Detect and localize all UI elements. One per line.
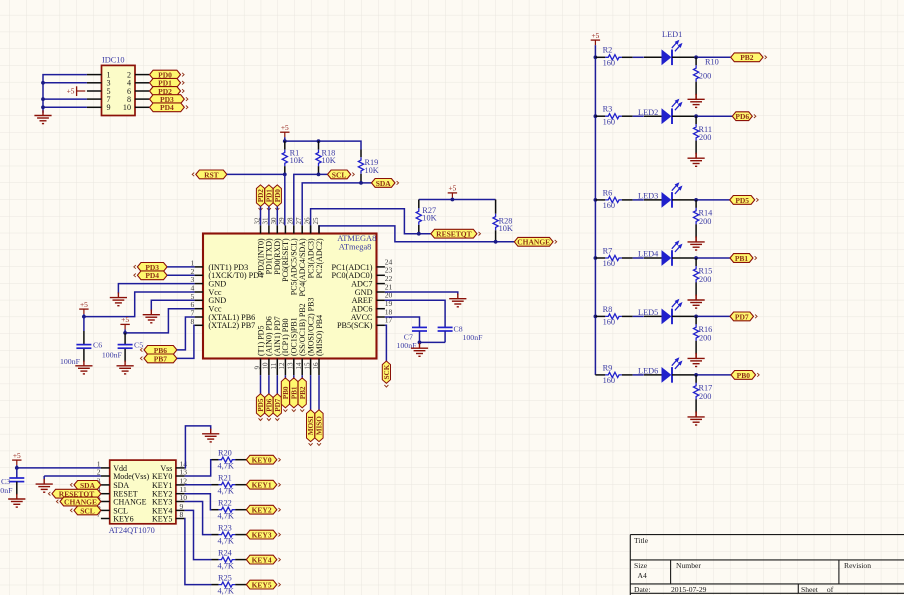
svg-text:PD7: PD7 <box>274 398 282 412</box>
svg-text:+5: +5 <box>67 86 75 95</box>
connector IDC10 <box>102 55 136 115</box>
svg-text:160: 160 <box>603 201 615 210</box>
svg-text:2015-07-29: 2015-07-29 <box>671 585 707 594</box>
svg-text:PB1: PB1 <box>290 386 298 399</box>
junction <box>594 198 598 202</box>
port SDA (AT24) <box>70 481 101 490</box>
port SCK <box>382 361 391 387</box>
svg-text:100nF: 100nF <box>463 333 484 342</box>
resistor R20 4,7K <box>212 449 247 471</box>
wire +5 pin6 <box>125 309 195 333</box>
svg-text:PD5: PD5 <box>257 398 265 412</box>
svg-text:R6: R6 <box>603 188 613 197</box>
port KEY4 <box>246 555 280 564</box>
port PB0 (bottom) <box>281 378 290 412</box>
U1 top pin numbers <box>253 217 320 225</box>
wire KEY4 <box>185 510 212 559</box>
port PD6 <box>732 112 756 121</box>
svg-text:4,7K: 4,7K <box>218 462 234 471</box>
ATMEGA8 U1 body <box>203 234 377 359</box>
port KEY3 <box>246 530 280 539</box>
wire pin9 <box>43 106 87 108</box>
svg-text:2: 2 <box>97 468 101 477</box>
wire <box>696 115 732 117</box>
resistor R22 4,7K <box>212 499 247 521</box>
resistor R21 4,7K <box>212 474 247 496</box>
wire RST <box>227 173 285 175</box>
junction <box>694 55 698 59</box>
svg-text:of: of <box>827 585 834 594</box>
svg-text:10K: 10K <box>365 166 379 175</box>
svg-text:4,7K: 4,7K <box>218 487 234 496</box>
svg-text:10: 10 <box>123 103 131 112</box>
port RESETQT (AT24) <box>48 489 101 498</box>
wire KEY0 <box>185 460 212 476</box>
port PB2 (bottom) <box>298 378 307 412</box>
junction <box>123 331 127 335</box>
wire <box>633 115 644 117</box>
svg-text:(MISO) PB4: (MISO) PB4 <box>315 315 324 356</box>
svg-text:SCK: SCK <box>383 364 391 379</box>
U1 right pin names <box>332 263 373 330</box>
wire <box>301 375 303 378</box>
svg-text:+5: +5 <box>281 123 289 132</box>
port PD1 <box>150 78 185 87</box>
svg-text:200: 200 <box>699 333 711 342</box>
port PD1 (top) <box>265 185 274 210</box>
resistor R10 200 <box>694 57 719 95</box>
svg-text:PD2: PD2 <box>257 189 265 203</box>
wire <box>695 153 697 159</box>
svg-text:KEY3: KEY3 <box>152 497 172 506</box>
port PD4 <box>134 271 167 280</box>
svg-text:10K: 10K <box>499 224 513 233</box>
wire <box>260 207 262 226</box>
wire <box>696 374 731 376</box>
ground R15 <box>688 295 705 308</box>
wire <box>633 315 644 317</box>
ground R11 <box>688 153 705 166</box>
svg-text:9: 9 <box>107 103 111 112</box>
wire <box>284 137 286 141</box>
U1 right pins 24-17 <box>377 267 385 325</box>
wire <box>695 295 697 301</box>
ground R17 <box>688 412 705 425</box>
resistor R23 4,7K <box>212 523 247 545</box>
svg-text:R21: R21 <box>218 474 232 483</box>
wire pin18 C7 <box>385 317 420 327</box>
svg-text:Sheet: Sheet <box>801 585 819 594</box>
wire <box>672 56 696 58</box>
U1 top pin names <box>256 238 324 297</box>
wire +5 to R19 <box>285 141 361 149</box>
svg-text:Number: Number <box>676 561 701 570</box>
svg-text:28: 28 <box>287 217 295 225</box>
svg-text:200: 200 <box>699 392 711 401</box>
svg-text:10K: 10K <box>422 214 436 223</box>
svg-text:200: 200 <box>699 275 711 284</box>
svg-text:9: 9 <box>253 366 261 370</box>
svg-text:PC2(ADC2): PC2(ADC2) <box>315 238 324 278</box>
svg-text:KEY5: KEY5 <box>252 581 272 590</box>
U1 bottom pins 9-16 <box>261 359 320 376</box>
resistor R3 160 <box>595 105 632 127</box>
wire <box>695 236 697 242</box>
svg-text:PB0: PB0 <box>282 386 290 399</box>
port KEY0 <box>246 455 280 464</box>
wire pin20 C8 <box>385 300 445 327</box>
svg-text:KEY0: KEY0 <box>152 472 172 481</box>
svg-text:200: 200 <box>699 217 711 226</box>
svg-text:R10: R10 <box>705 58 719 67</box>
svg-text:LED1: LED1 <box>662 30 682 39</box>
svg-text:+5: +5 <box>80 300 88 309</box>
svg-text:200: 200 <box>699 133 711 142</box>
wire pin7 <box>43 98 87 100</box>
svg-text:14: 14 <box>295 362 303 370</box>
junction <box>283 173 287 177</box>
resistor R19 10K <box>358 150 378 183</box>
junction <box>694 114 698 118</box>
svg-text:R9: R9 <box>603 363 613 372</box>
junction <box>694 315 698 319</box>
junction <box>451 198 455 202</box>
svg-text:PD6: PD6 <box>266 398 274 412</box>
wire <box>633 257 644 259</box>
svg-text:KEY6: KEY6 <box>113 514 133 523</box>
resistor R11 200 <box>694 116 713 154</box>
svg-text:4,7K: 4,7K <box>218 512 234 521</box>
U2 right pin numbers <box>180 459 188 519</box>
svg-text:C3: C3 <box>1 477 10 486</box>
svg-text:A4: A4 <box>638 571 647 580</box>
resistor R14 200 <box>694 200 714 238</box>
svg-text:8: 8 <box>191 317 195 326</box>
junction <box>41 81 45 85</box>
U1 bottom pin names <box>256 298 324 356</box>
port PD5 (bottom) <box>256 394 265 421</box>
wire PB6 <box>177 317 195 350</box>
wire RESETQT <box>311 209 431 234</box>
svg-text:100nF: 100nF <box>0 486 13 495</box>
svg-text:+5: +5 <box>448 184 456 193</box>
capacitor C6 100nF <box>60 317 102 367</box>
svg-text:IDC10: IDC10 <box>102 55 125 64</box>
resistor R18 10K <box>316 141 336 174</box>
LED LED5 <box>638 300 681 324</box>
wire <box>16 465 18 468</box>
resistor R27 10K <box>416 200 436 234</box>
wire gnd rail <box>43 75 87 113</box>
svg-text:+5: +5 <box>13 451 21 460</box>
ground pin2 <box>36 479 53 492</box>
svg-text:KEY0: KEY0 <box>252 456 272 465</box>
wire SDA <box>302 183 371 226</box>
svg-text:LED3: LED3 <box>638 192 658 201</box>
svg-text:LED4: LED4 <box>638 250 659 259</box>
wire <box>268 375 270 394</box>
svg-text:CHANGE: CHANGE <box>517 238 550 247</box>
port MISO (bottom) <box>315 410 324 446</box>
svg-text:15: 15 <box>303 362 311 370</box>
svg-text:RST: RST <box>204 170 219 179</box>
junction <box>494 240 498 244</box>
wire +5 Vdd <box>17 467 101 469</box>
svg-text:11: 11 <box>270 362 278 369</box>
svg-text:4,7K: 4,7K <box>218 586 234 595</box>
svg-text:+5: +5 <box>591 31 599 40</box>
wire <box>310 375 312 410</box>
wire <box>43 476 45 480</box>
svg-text:PB5(SCK): PB5(SCK) <box>337 321 373 330</box>
wire pin2 gnd <box>44 475 101 477</box>
resistor R1 10K <box>282 141 304 174</box>
resistor R15 200 <box>694 258 713 296</box>
U2 left pin names <box>113 464 149 524</box>
wire <box>83 314 85 317</box>
ground pin5 <box>143 310 160 323</box>
svg-text:100nF: 100nF <box>102 350 123 359</box>
ground R10 <box>688 94 705 107</box>
wire KEY5 <box>185 519 212 585</box>
wire <box>695 353 697 359</box>
svg-text:R22: R22 <box>218 499 232 508</box>
+5 power R27 <box>448 184 457 198</box>
junction <box>317 173 321 177</box>
wire <box>696 315 730 317</box>
+5 power pin6 <box>120 315 129 329</box>
port SDA <box>372 179 399 188</box>
svg-text:Mode(Vss): Mode(Vss) <box>113 472 149 481</box>
port PD0 <box>150 70 185 79</box>
junction <box>41 105 45 109</box>
capacitor C3 100nF <box>0 468 24 495</box>
svg-text:RESETQT: RESETQT <box>436 230 471 239</box>
port PD2 <box>150 87 185 96</box>
svg-text:ATmega8: ATmega8 <box>339 243 372 252</box>
wire <box>696 257 730 259</box>
wire <box>451 198 453 200</box>
wire <box>695 94 697 100</box>
svg-text:10K: 10K <box>290 156 304 165</box>
+5 power AT24 <box>12 451 21 465</box>
IDC10 pins <box>87 75 149 108</box>
svg-text:R23: R23 <box>218 523 232 532</box>
port PB6 <box>140 346 177 355</box>
svg-text:12: 12 <box>278 362 286 370</box>
LED LED3 <box>638 184 681 208</box>
svg-text:SCL: SCL <box>332 170 347 179</box>
wire <box>167 266 195 268</box>
port MOSI (bottom) <box>307 410 316 446</box>
+5 power R1 <box>280 123 289 137</box>
wire <box>633 374 644 376</box>
U1 left pin names <box>208 263 263 330</box>
svg-text:Title: Title <box>634 536 649 545</box>
svg-text:Revision: Revision <box>844 561 871 570</box>
ground C7 <box>411 343 428 356</box>
resistor R9 160 <box>595 363 632 385</box>
wire <box>293 375 295 378</box>
svg-text:29: 29 <box>278 217 286 225</box>
port PB7 <box>140 354 177 363</box>
svg-text:SCL: SCL <box>80 506 95 515</box>
svg-text:KEY3: KEY3 <box>252 531 272 540</box>
svg-text:160: 160 <box>603 59 615 68</box>
port PD4 <box>150 103 188 112</box>
U1 left pin numbers <box>191 258 195 325</box>
svg-text:25: 25 <box>312 217 320 225</box>
svg-text:160: 160 <box>603 376 615 385</box>
svg-text:ATMEGA8: ATMEGA8 <box>337 234 376 243</box>
svg-text:8: 8 <box>180 510 184 519</box>
resistor R17 200 <box>694 375 713 413</box>
svg-text:R7: R7 <box>603 246 613 255</box>
svg-text:R8: R8 <box>603 305 613 314</box>
wire <box>696 56 731 58</box>
svg-text:PB1: PB1 <box>735 254 749 263</box>
resistor R25 4,7K <box>212 573 247 595</box>
svg-text:13: 13 <box>287 362 295 370</box>
wire <box>276 207 278 226</box>
U1 top pins 32-25 <box>261 225 320 233</box>
port SCL (AT24) <box>70 506 101 515</box>
port PD0 (top) <box>273 185 282 210</box>
LED LED1 <box>644 30 682 65</box>
junction <box>418 341 422 345</box>
svg-text:Date:: Date: <box>634 585 650 594</box>
ground R16 <box>688 353 705 366</box>
svg-text:KEY1: KEY1 <box>152 481 172 490</box>
junction <box>41 97 45 101</box>
ground pin21 <box>449 294 466 307</box>
wire pin3 gnd <box>118 284 194 294</box>
ground C3 <box>8 494 25 507</box>
resistor R16 200 <box>694 316 713 354</box>
wire <box>672 315 696 317</box>
svg-text:R2: R2 <box>603 46 613 55</box>
wire +5 rail R27 R28 <box>419 199 496 201</box>
svg-text:PD5: PD5 <box>735 196 749 205</box>
port PB2 <box>731 53 767 62</box>
port SCL <box>328 170 355 179</box>
svg-text:PD4: PD4 <box>145 271 159 280</box>
port KEY2 <box>246 505 280 514</box>
wire pin21 gnd <box>385 292 458 295</box>
U1 right pin numbers <box>385 257 393 324</box>
junction <box>594 256 598 260</box>
svg-text:4,7K: 4,7K <box>218 561 234 570</box>
port CHANGE (AT24) <box>56 497 101 506</box>
svg-text:SDA: SDA <box>376 179 392 188</box>
wire <box>260 375 262 394</box>
port PB1 (bottom) <box>290 378 299 412</box>
wire <box>696 199 730 201</box>
U2 right pin names <box>152 464 172 524</box>
port PB1 <box>730 254 757 263</box>
wire SCL <box>294 174 328 225</box>
svg-text:R25: R25 <box>218 573 232 582</box>
wire <box>167 274 195 276</box>
IDC10 pin numbers <box>107 71 132 113</box>
svg-text:R3: R3 <box>603 105 613 114</box>
resistor R2 160 <box>595 46 632 68</box>
svg-text:C8: C8 <box>454 325 463 334</box>
svg-text:CHANGE: CHANGE <box>64 497 97 506</box>
svg-text:PD4: PD4 <box>160 103 174 112</box>
wire <box>633 199 644 201</box>
svg-text:MOSI: MOSI <box>307 416 315 435</box>
svg-text:26: 26 <box>303 217 311 225</box>
ground C6 <box>75 361 92 374</box>
wire <box>672 115 696 117</box>
+5 power IDC10 <box>67 86 86 96</box>
port RESETQT <box>431 229 481 238</box>
junction <box>82 315 86 319</box>
svg-text:KEY5: KEY5 <box>152 514 172 523</box>
LED LED6 <box>638 359 681 383</box>
LED LED2 <box>638 100 681 124</box>
svg-text:10: 10 <box>262 362 270 370</box>
junction <box>694 256 698 260</box>
svg-text:KEY2: KEY2 <box>252 506 272 515</box>
wire <box>672 257 696 259</box>
port PD2 (top) <box>256 185 265 210</box>
wire KEY3 <box>185 502 212 535</box>
svg-text:KEY4: KEY4 <box>252 556 272 565</box>
wire <box>124 329 126 333</box>
svg-text:LED2: LED2 <box>638 108 658 117</box>
title block <box>630 535 904 595</box>
junction <box>594 114 598 118</box>
U1 bottom pin numbers <box>253 362 320 370</box>
svg-text:SDA: SDA <box>80 481 96 490</box>
ground R14 <box>688 237 705 250</box>
wire LED +5 rail <box>594 45 596 375</box>
AT24QT1070 U2 body <box>109 460 176 535</box>
junction <box>15 466 19 470</box>
svg-text:200: 200 <box>699 72 711 81</box>
svg-text:PB2: PB2 <box>299 386 307 399</box>
svg-text:100nF: 100nF <box>60 357 81 366</box>
svg-text:4,7K: 4,7K <box>218 536 234 545</box>
wire PB7 <box>177 325 195 358</box>
resistor R28 10K <box>493 200 513 242</box>
wire <box>284 375 286 378</box>
port CHANGE <box>514 237 556 246</box>
wire <box>318 375 320 410</box>
port KEY5 <box>246 580 280 589</box>
ground C5 <box>117 361 134 374</box>
port PD3 <box>150 95 188 104</box>
svg-text:R20: R20 <box>218 449 232 458</box>
wire <box>633 56 644 58</box>
U2 left pins 1-7 <box>101 468 110 519</box>
wire pin5 gnd <box>151 300 194 311</box>
svg-text:+5: +5 <box>121 315 129 324</box>
svg-text:PB2: PB2 <box>740 53 754 62</box>
svg-text:PD7: PD7 <box>735 312 749 321</box>
wire <box>276 375 278 394</box>
+5 power LED rail <box>591 31 600 45</box>
svg-text:160: 160 <box>603 259 615 268</box>
svg-text:KEY1: KEY1 <box>252 481 272 490</box>
port KEY1 <box>246 480 280 489</box>
svg-text:PB7: PB7 <box>154 354 168 363</box>
wire <box>672 199 696 201</box>
resistor R24 4,7K <box>212 548 247 570</box>
resistor R6 160 <box>595 188 632 210</box>
